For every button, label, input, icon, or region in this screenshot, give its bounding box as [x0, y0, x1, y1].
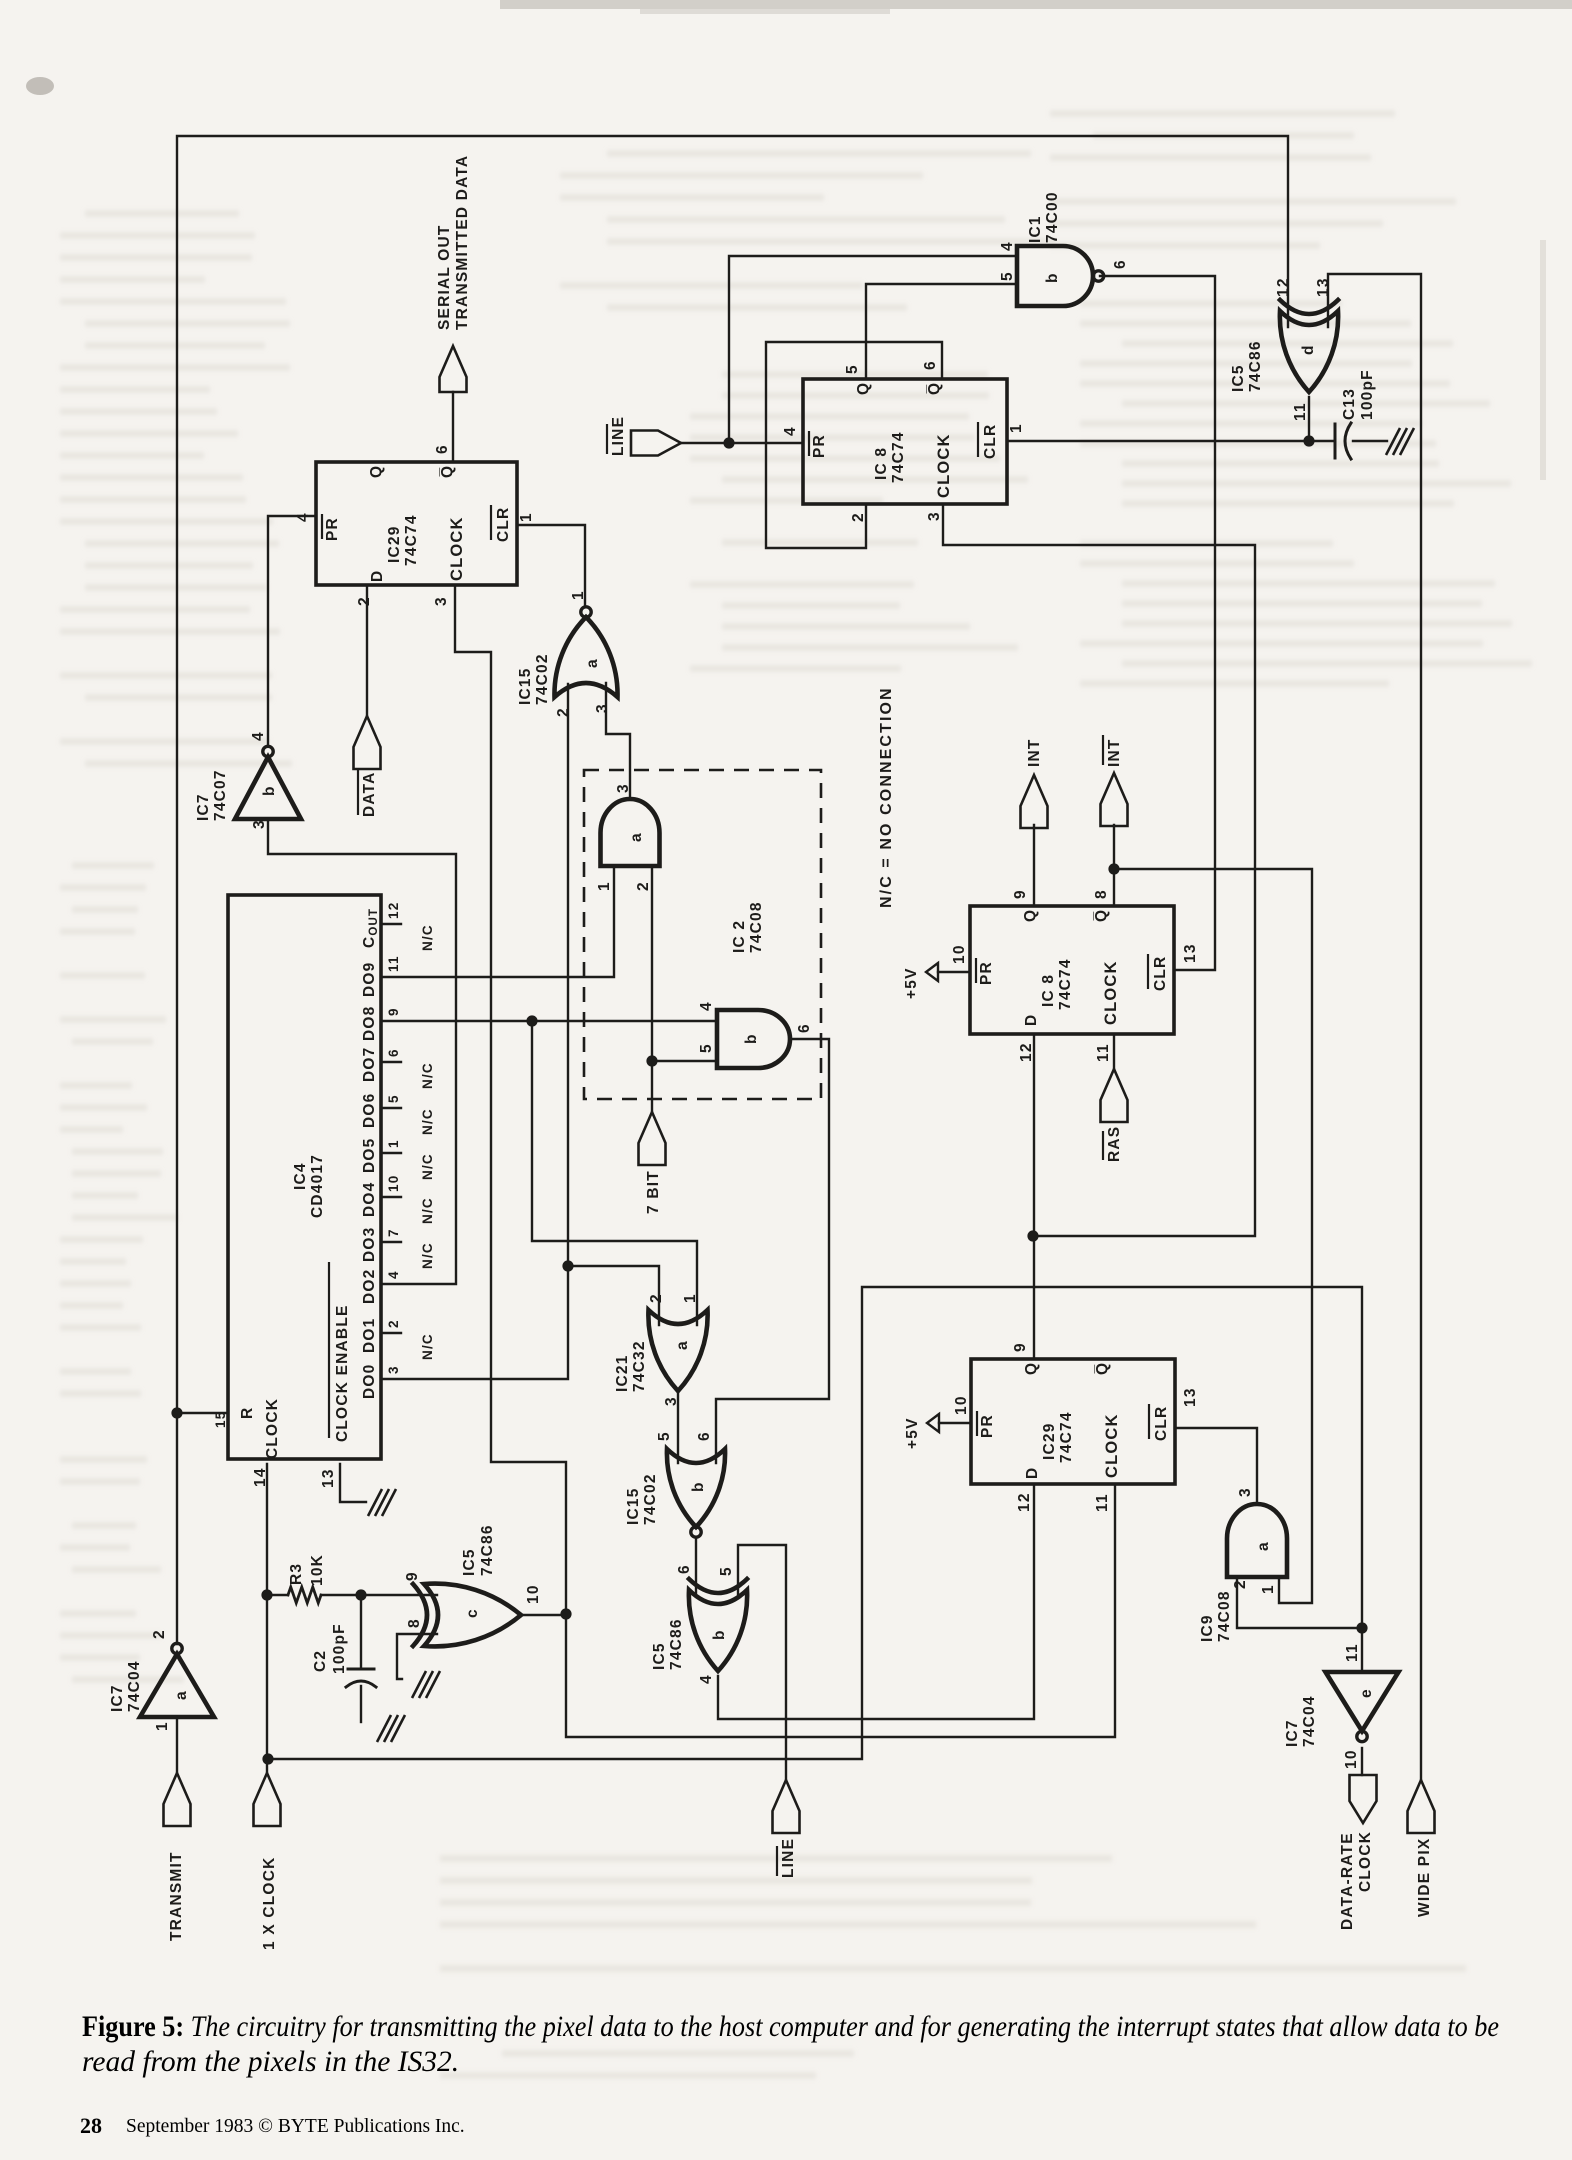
wire IC29 D pin 2 to DATA arrow: [366, 585, 368, 716]
svg-text:2: 2: [635, 881, 652, 891]
svg-text:3: 3: [433, 596, 450, 606]
svg-text:CLR: CLR: [1153, 1406, 1170, 1441]
svg-text:DO2: DO2: [361, 1269, 378, 1304]
svg-text:IC7: IC7: [109, 1684, 126, 1712]
ghost text left column: [60, 210, 292, 1683]
svg-text:WIDE PIX: WIDE PIX: [1416, 1838, 1433, 1917]
inverter IC7 74C04 a: [140, 1643, 214, 1717]
IC7b labels: [195, 731, 278, 829]
svg-text:5: 5: [844, 364, 861, 374]
svg-text:DATA-RATE: DATA-RATE: [1339, 1832, 1356, 1930]
svg-text:TRANSMIT: TRANSMIT: [168, 1851, 185, 1941]
svg-text:DO3: DO3: [361, 1227, 378, 1262]
IC4 name: [292, 1154, 326, 1218]
svg-text:N/C: N/C: [420, 1108, 435, 1135]
svg-text:5: 5: [386, 1094, 401, 1103]
svg-text:a: a: [173, 1690, 190, 1700]
svg-text:4: 4: [250, 731, 267, 741]
page footer: [80, 2113, 465, 2138]
svg-text:Q̅: Q̅: [926, 382, 943, 395]
svg-text:74C02: 74C02: [534, 653, 551, 705]
svg-text:CD4017: CD4017: [309, 1154, 326, 1218]
svg-text:11: 11: [1094, 1493, 1111, 1512]
svg-text:12: 12: [1275, 277, 1292, 297]
wire IC8b D pin 12 to IC29b Q pin 9: [1033, 1034, 1035, 1359]
INT-bar output arrow: [1101, 773, 1128, 826]
svg-text:b: b: [711, 1629, 728, 1640]
svg-text:DO0: DO0: [361, 1364, 378, 1399]
svg-text:IC7: IC7: [1284, 1719, 1301, 1747]
svg-text:IC15: IC15: [517, 667, 534, 705]
svg-text:IC7: IC7: [195, 793, 212, 821]
svg-text:a: a: [674, 1340, 691, 1350]
C13 labels: [1341, 369, 1376, 420]
svg-text:N/C: N/C: [420, 1333, 435, 1360]
svg-text:4: 4: [698, 1674, 715, 1684]
INT label: [1026, 738, 1043, 767]
svg-text:N/C: N/C: [420, 1062, 435, 1089]
wire IC2a output 3 to NOR a pin 3: [606, 683, 630, 799]
svg-text:IC21: IC21: [614, 1354, 631, 1392]
svg-text:6: 6: [434, 444, 451, 454]
svg-text:13: 13: [320, 1468, 337, 1488]
wire R-net left border and top border to XOR d pin 12: [177, 136, 1288, 1644]
IC4 CLOCK ENABLE label: [320, 1262, 351, 1488]
+5V arrow IC29b: [904, 1414, 939, 1449]
wire IC8 CLOCK pin 3 to Q-node: [943, 504, 1255, 1236]
wire Qbar-8 to IC9a pin 1: [1114, 869, 1312, 1603]
IC29 labels: [322, 465, 512, 582]
WIDE PIX input arrow: [1408, 1780, 1435, 1833]
wire IC29 PR pin 4 to IC7b: [268, 516, 316, 745]
XOR IC5 74C86 d: [1280, 300, 1338, 392]
svg-text:IC29: IC29: [386, 525, 403, 563]
svg-text:CLOCK: CLOCK: [264, 1398, 281, 1459]
wire 1xCLOCK to IC9a pin 2: [1237, 1577, 1362, 1628]
svg-text:2: 2: [151, 1629, 168, 1639]
7BIT label: [645, 1170, 662, 1214]
node 7BIT junction: [646, 1055, 657, 1066]
wire IC29 CLR pin 1 to NOR a output: [517, 525, 585, 606]
svg-text:DO6: DO6: [361, 1093, 378, 1128]
svg-text:September 1983 © BYTE Publicat: September 1983 © BYTE Publications Inc.: [126, 2116, 465, 2137]
ghost text right column: [1050, 110, 1532, 687]
wire XOR d output 11: [1308, 397, 1310, 441]
svg-text:1: 1: [154, 1721, 171, 1731]
wire IC4 DO0 pin 3 to NOR net: [381, 1266, 568, 1379]
LINE bottom label: [777, 1838, 797, 1878]
capacitor C13 100pF: [1335, 423, 1351, 459]
svg-text:read from the pixels in the IS: read from the pixels in the IS32.: [82, 2046, 459, 2078]
svg-text:PR: PR: [324, 517, 341, 541]
svg-text:74C86: 74C86: [668, 1618, 685, 1670]
svg-text:CLOCK: CLOCK: [448, 516, 466, 581]
svg-text:e: e: [1358, 1688, 1375, 1698]
svg-text:N/C: N/C: [420, 1197, 435, 1224]
svg-text:D: D: [1023, 1014, 1040, 1026]
svg-text:DO9: DO9: [361, 962, 378, 997]
svg-text:IC4: IC4: [292, 1162, 309, 1190]
IC29 pin numbers: [295, 444, 535, 606]
ground at C2: [377, 1715, 405, 1742]
svg-text:CLR: CLR: [495, 507, 512, 542]
svg-text:7: 7: [386, 1228, 401, 1237]
wire IC8 Qbar pin 6 to D pin 2 loop: [766, 342, 942, 548]
DATA label: [358, 770, 378, 817]
svg-text:IC 8: IC 8: [1040, 974, 1057, 1007]
wire IC21a output 3 to NOR b pin 5: [677, 1391, 679, 1463]
svg-text:74C08: 74C08: [1216, 1590, 1233, 1642]
node C13 junction: [1303, 435, 1314, 446]
XOR c labels: [404, 1524, 542, 1628]
svg-text:IC5: IC5: [651, 1642, 668, 1670]
ground at IC4 pin 13: [368, 1489, 396, 1516]
LINE top label: [607, 416, 627, 456]
svg-text:LINE: LINE: [610, 416, 627, 456]
node R3 right junction: [355, 1589, 366, 1600]
XOR d labels: [1230, 277, 1332, 421]
svg-text:12: 12: [1018, 1042, 1035, 1062]
svg-text:1: 1: [1260, 1584, 1277, 1594]
svg-text:a: a: [628, 832, 645, 842]
DATA-RATE CLOCK label: [1339, 1831, 1374, 1930]
wire XOR b output 4 to IC29b D pin 12: [718, 1484, 1034, 1719]
svg-text:c: c: [464, 1608, 481, 1618]
wire IC29b PR pin 10 to +5V: [939, 1422, 971, 1424]
wire XOR c output 10: [521, 1614, 566, 1616]
svg-text:Q: Q: [1022, 909, 1039, 922]
svg-text:74C86: 74C86: [1247, 340, 1264, 392]
svg-text:8: 8: [1093, 889, 1110, 899]
NOR IC15 74C02 a: [554, 607, 617, 697]
counter IC4 CD4017 box: [228, 895, 381, 1459]
NAND IC1 74C00 b: [1017, 246, 1104, 306]
svg-text:3: 3: [386, 1365, 401, 1374]
wire IC4 DO9 pin 11 to IC2a pin 1: [381, 866, 614, 977]
svg-text:4: 4: [999, 241, 1016, 251]
svg-text:1: 1: [682, 1293, 699, 1303]
IC4 R label: [213, 1407, 256, 1428]
svg-text:74C32: 74C32: [631, 1340, 648, 1392]
INT-bar label: [1103, 735, 1123, 767]
wire IC4 DO8 pin 9 to IC2b pin 4: [381, 1020, 717, 1022]
wire IC2b output 6 to NOR b pin 6: [716, 1039, 829, 1463]
wire IC8 Q pin 5 to IC1 NAND pin 5: [866, 284, 1017, 379]
flip-flop IC8 74C74 second box: [970, 906, 1174, 1034]
DATA-RATE CLOCK output arrow: [1350, 1775, 1377, 1823]
R3 labels: [288, 1554, 326, 1586]
svg-text:a: a: [584, 658, 601, 668]
svg-text:IC29: IC29: [1041, 1422, 1058, 1460]
svg-text:11: 11: [1095, 1043, 1112, 1062]
node 1xCLOCK arrow junction: [262, 1753, 273, 1764]
+5V arrow IC8b: [903, 963, 938, 999]
wire IC4 CLOCK ENABLE pin 13 to ground: [340, 1464, 366, 1502]
svg-text:3: 3: [615, 783, 632, 793]
wire IC7b input to IC4 DO2 pin 4: [268, 819, 456, 1284]
svg-text:74C02: 74C02: [642, 1473, 659, 1525]
svg-text:6: 6: [922, 360, 939, 370]
IC21 labels: [614, 1293, 699, 1406]
svg-text:D: D: [369, 570, 386, 582]
svg-text:6: 6: [1112, 259, 1129, 269]
IC4 output pins DO0-DO9 COUT: [361, 902, 435, 1399]
svg-text:DATA: DATA: [361, 771, 378, 817]
svg-text:1: 1: [386, 1139, 401, 1148]
IC29b pin numbers: [953, 1342, 1199, 1512]
svg-text:2: 2: [648, 1293, 665, 1303]
svg-text:7 BIT: 7 BIT: [645, 1170, 662, 1214]
svg-text:R: R: [239, 1407, 256, 1419]
OR IC21 74C32 a: [648, 1310, 707, 1391]
node clock net XORc output join: [560, 1608, 571, 1619]
svg-text:+5V: +5V: [903, 967, 920, 999]
svg-text:C13: C13: [1341, 388, 1358, 420]
svg-text:b: b: [743, 1033, 760, 1044]
wire IC8b Q pin 9 to INT: [1033, 825, 1035, 906]
wire 7BIT to IC2 pins: [652, 866, 717, 1112]
svg-text:DO8: DO8: [361, 1006, 378, 1041]
wire IC8b Qbar pin 8 to INT-bar: [1113, 825, 1115, 906]
wire DO8 branch to IC21a pin 1: [532, 1021, 697, 1325]
svg-text:b: b: [1044, 272, 1061, 283]
wire IC1 NAND output 6 to IC8b CLR pin 13: [1100, 276, 1215, 970]
C2 labels: [312, 1623, 348, 1674]
XOR b labels: [651, 1564, 735, 1684]
svg-text:Figure 5: The circuitry for tr: Figure 5: The circuitry for transmitting…: [82, 2011, 1499, 2043]
wire XOR d pin 13 to WIDE PIX: [1328, 274, 1421, 1780]
svg-text:1 X CLOCK: 1 X CLOCK: [261, 1857, 278, 1950]
svg-text:9: 9: [1012, 1342, 1029, 1352]
node DO8 branch: [526, 1015, 537, 1026]
svg-text:N/C: N/C: [420, 1153, 435, 1180]
svg-text:12: 12: [386, 902, 401, 919]
svg-text:10: 10: [1343, 1749, 1360, 1769]
svg-text:CLOCK ENABLE: CLOCK ENABLE: [334, 1304, 351, 1442]
svg-text:3: 3: [663, 1396, 680, 1406]
svg-text:8: 8: [406, 1618, 423, 1628]
TRANSMIT label: [168, 1851, 185, 1941]
IC9 labels: [1199, 1487, 1277, 1642]
svg-text:CLOCK: CLOCK: [1102, 960, 1120, 1025]
svg-text:4: 4: [782, 426, 799, 436]
IC4 CLOCK label: [252, 1398, 281, 1487]
svg-text:N/C: N/C: [420, 1242, 435, 1269]
svg-text:6: 6: [386, 1048, 401, 1057]
wire C2 leads: [360, 1595, 362, 1722]
AND IC2 74C08 b: [717, 1010, 790, 1068]
XOR IC5 74C86 b: [689, 1579, 747, 1671]
ground at XOR c pin 8: [412, 1671, 440, 1698]
wire clock net IC29 pin3 - XORc - IC29b pin11: [455, 585, 1115, 1737]
IC1 labels: [999, 191, 1129, 283]
wire XOR c pin 8 to ground: [397, 1634, 437, 1679]
node Qbar-8 junction: [1108, 863, 1119, 874]
wire LINE top to IC8 PR pin 4: [681, 442, 803, 444]
svg-text:DO5: DO5: [361, 1138, 378, 1173]
svg-text:CLOCK: CLOCK: [935, 433, 953, 498]
svg-text:5: 5: [698, 1043, 715, 1053]
IC2b labels: [698, 1001, 813, 1053]
wire IC8b PR pin 10 to +5V: [938, 971, 970, 973]
svg-text:6: 6: [696, 1431, 713, 1441]
wire IC7a output 2 up: [176, 1717, 178, 1773]
capacitor C2 100pF: [346, 1669, 376, 1687]
LINE input arrow bottom: [773, 1780, 800, 1833]
buffer IC7 74C07 b: [235, 746, 301, 819]
svg-text:6: 6: [796, 1023, 813, 1033]
N/C note: [878, 686, 895, 908]
svg-text:4: 4: [698, 1001, 715, 1011]
AND IC2 74C08 a: [601, 799, 660, 866]
svg-text:SERIAL OUT: SERIAL OUT: [436, 224, 453, 330]
svg-text:6: 6: [676, 1564, 693, 1574]
svg-text:9: 9: [404, 1571, 421, 1581]
flip-flop IC29 74C74 box: [316, 462, 517, 585]
svg-text:DO7: DO7: [361, 1047, 378, 1082]
wire IC8b CLOCK pin 11 to RAS: [1113, 1034, 1115, 1069]
node D12-Q9 junction: [1027, 1230, 1038, 1241]
svg-text:74C74: 74C74: [1058, 1411, 1075, 1463]
svg-text:N/C: N/C: [420, 924, 435, 951]
svg-text:10: 10: [386, 1175, 401, 1192]
svg-text:IC5: IC5: [461, 1548, 478, 1576]
svg-text:LINE: LINE: [780, 1838, 797, 1878]
DATA output arrow: [354, 716, 381, 769]
IC7e labels: [1284, 1643, 1375, 1769]
svg-text:Q: Q: [1023, 1362, 1040, 1375]
wire 1xCLOCK net: [268, 1287, 1362, 1759]
svg-text:2: 2: [356, 596, 373, 606]
1xCLOCK label: [261, 1857, 278, 1950]
svg-text:13: 13: [1182, 943, 1199, 963]
svg-text:3: 3: [594, 703, 611, 713]
svg-text:N/C = NO CONNECTION: N/C = NO CONNECTION: [878, 686, 895, 908]
LINE input arrow top: [631, 431, 681, 456]
IC8 labels: [809, 382, 999, 498]
svg-text:IC5: IC5: [1230, 364, 1247, 392]
flip-flop IC8 74C74 box: [803, 379, 1007, 504]
svg-text:2: 2: [386, 1319, 401, 1328]
RAS input arrow: [1101, 1069, 1128, 1122]
svg-text:74C08: 74C08: [748, 901, 765, 953]
svg-text:Q̅: Q̅: [1094, 1362, 1111, 1375]
svg-text:5: 5: [999, 271, 1016, 281]
ground at C13: [1386, 428, 1414, 455]
RAS label: [1103, 1126, 1123, 1162]
svg-text:1: 1: [570, 590, 587, 600]
7BIT input arrow: [639, 1112, 666, 1165]
svg-text:IC 8: IC 8: [873, 447, 890, 480]
wire IC4 CLOCK pin 14 to 1xCLOCK: [266, 1464, 268, 1773]
wire IC8 CLR pin 1 to C13 node: [1007, 440, 1334, 442]
svg-text:11: 11: [1344, 1643, 1361, 1662]
svg-text:a: a: [1255, 1541, 1272, 1551]
svg-text:74C74: 74C74: [890, 431, 907, 483]
svg-text:Q̅: Q̅: [439, 465, 456, 478]
NOR a labels: [517, 590, 611, 717]
node DO0 net junction: [562, 1260, 573, 1271]
wire NOR b output 4 to XOR b pin 6: [695, 1538, 697, 1594]
SERIAL OUT arrow: [440, 346, 467, 392]
SERIAL OUT label: [436, 155, 471, 330]
NOR IC15 74C02 b: [667, 1449, 725, 1537]
svg-text:DO1: DO1: [361, 1318, 378, 1353]
svg-text:2: 2: [1232, 1579, 1249, 1589]
svg-text:3: 3: [926, 511, 943, 521]
AND IC9 74C08 a: [1227, 1504, 1287, 1577]
svg-text:TRANSMITTED DATA: TRANSMITTED DATA: [454, 155, 471, 330]
wire IC7e output 10 to DATA-RATE CLOCK: [1361, 1748, 1363, 1775]
svg-text:74C07: 74C07: [212, 769, 229, 821]
svg-text:13: 13: [1182, 1387, 1199, 1407]
dashed outline IC2: [584, 770, 821, 1099]
flip-flop IC29 74C74 second box: [971, 1359, 1175, 1484]
svg-text:13: 13: [1315, 277, 1332, 297]
svg-text:14: 14: [252, 1467, 269, 1487]
svg-text:5: 5: [656, 1431, 673, 1441]
1xCLOCK input arrow: [254, 1773, 281, 1826]
svg-text:15: 15: [213, 1411, 228, 1428]
IC8b labels: [976, 909, 1169, 1026]
IC2 label: [731, 901, 765, 953]
wire LINE to IC1 NAND pin 4: [729, 256, 1017, 443]
svg-text:5: 5: [718, 1566, 735, 1576]
svg-text:1: 1: [596, 881, 613, 891]
inverter IC7 74C04 e: [1326, 1672, 1399, 1742]
svg-text:1: 1: [518, 512, 535, 522]
svg-text:INT: INT: [1106, 738, 1123, 767]
svg-text:D: D: [1024, 1467, 1041, 1479]
svg-text:4: 4: [295, 512, 312, 522]
svg-text:2: 2: [850, 512, 867, 522]
svg-text:PR: PR: [978, 961, 995, 985]
svg-text:10: 10: [953, 1395, 970, 1415]
svg-text:CLOCK: CLOCK: [1357, 1831, 1374, 1892]
svg-text:1: 1: [1008, 423, 1025, 433]
svg-text:11: 11: [1292, 402, 1309, 421]
svg-text:CLR: CLR: [1152, 956, 1169, 991]
wire DO0 net to IC21a pin 2: [568, 1266, 659, 1325]
svg-text:d: d: [1300, 344, 1317, 355]
wire C13 to ground: [1353, 440, 1387, 442]
svg-text:9: 9: [1012, 889, 1029, 899]
wire LINE bottom to XOR b pin 5: [738, 1545, 786, 1780]
svg-text:9: 9: [386, 1007, 401, 1016]
svg-text:+5V: +5V: [904, 1417, 921, 1449]
svg-text:74C00: 74C00: [1044, 191, 1061, 243]
svg-text:28: 28: [80, 2113, 102, 2138]
TRANSMIT input arrow: [164, 1773, 191, 1826]
svg-text:74C74: 74C74: [1057, 958, 1074, 1010]
IC8b pin numbers: [951, 889, 1199, 1062]
ghost text bottom: [440, 1855, 1466, 2079]
svg-text:IC1: IC1: [1027, 215, 1044, 243]
svg-text:10K: 10K: [309, 1554, 326, 1586]
svg-text:11: 11: [386, 955, 401, 972]
svg-text:10: 10: [525, 1584, 542, 1604]
wire R3 to XOR c pin 9: [361, 1594, 437, 1596]
svg-text:DO4: DO4: [361, 1182, 378, 1217]
svg-text:Q: Q: [368, 465, 385, 478]
svg-text:4: 4: [386, 1270, 401, 1279]
node R-net to IC4 R pin 15: [171, 1407, 228, 1418]
svg-text:IC9: IC9: [1199, 1614, 1216, 1642]
svg-text:IC15: IC15: [625, 1487, 642, 1525]
svg-text:12: 12: [1016, 1492, 1033, 1512]
svg-text:C2: C2: [312, 1650, 329, 1672]
node LINE junction: [723, 437, 734, 448]
